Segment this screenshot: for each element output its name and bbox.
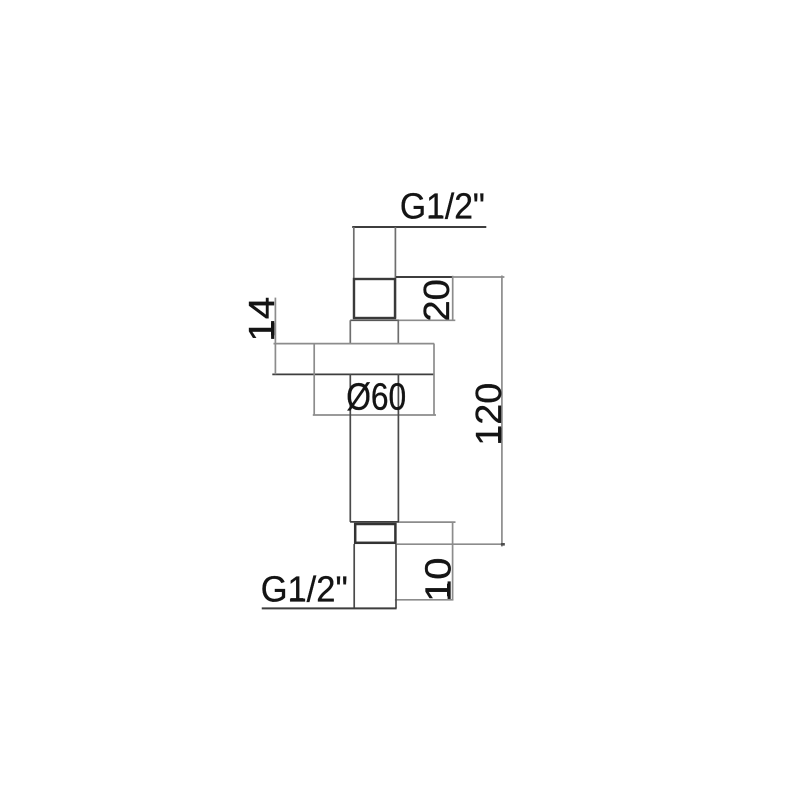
svg-text:G1/2": G1/2" bbox=[261, 568, 348, 609]
leader underline of top G1/2" label bbox=[352, 226, 486, 228]
bottom extension line to dim 120 bbox=[397, 543, 505, 545]
wire pipe left edge bbox=[349, 374, 351, 522]
extension line continuing to dim 120 line bbox=[454, 276, 505, 278]
svg-text:20: 20 bbox=[416, 279, 457, 322]
dim 10 bottom line bbox=[395, 599, 454, 601]
wire bottom pipe right edge bbox=[395, 544, 397, 608]
svg-text:G1/2": G1/2" bbox=[400, 185, 485, 226]
label G1/2" bottom bbox=[261, 568, 348, 609]
wire collar left edge bbox=[349, 320, 351, 344]
dim 14 text (rotated) bbox=[241, 297, 282, 342]
dim 14 boundary line bbox=[274, 298, 276, 375]
dia 60 box bottom edge bbox=[313, 414, 436, 416]
flange bottom edge (dark) with dim 14 extension bbox=[272, 373, 434, 375]
wire top pipe left edge bbox=[353, 227, 355, 318]
dim 10 right boundary line bbox=[452, 522, 454, 600]
dim 10 text (rotated) bbox=[417, 558, 458, 602]
dim 20 text (rotated) bbox=[416, 279, 457, 322]
svg-text:10: 10 bbox=[417, 558, 458, 602]
pipe bottom shoulder line bbox=[350, 521, 399, 523]
wire collar right edge bbox=[397, 320, 399, 344]
dim dia-60 text bbox=[346, 377, 406, 419]
wire bottom pipe left edge bbox=[353, 544, 355, 608]
leader underline of bottom G1/2" label + pipe end line bbox=[262, 607, 397, 609]
extension line from block top to dim 20 (dark part) bbox=[396, 276, 454, 278]
wire top pipe right edge bbox=[394, 227, 396, 318]
top thread block (thick outline) bbox=[354, 279, 395, 318]
dim 120 boundary line bbox=[501, 276, 503, 547]
svg-text:120: 120 bbox=[468, 383, 509, 446]
flange right edge joined with dia60 box right bbox=[433, 344, 435, 416]
wire pipe right edge bbox=[397, 374, 399, 522]
flange left edge joined with dia60 box left bbox=[313, 344, 315, 416]
svg-text:Ø60: Ø60 bbox=[346, 377, 406, 419]
label G1/2" top bbox=[400, 185, 485, 226]
dim 20 bottom line grey part bbox=[399, 319, 455, 321]
collar top shoulder line bbox=[350, 319, 399, 321]
dim 10 top extension line bbox=[399, 521, 456, 523]
dim 120 text (rotated) bbox=[468, 383, 509, 446]
svg-text:14: 14 bbox=[241, 297, 282, 342]
bottom thread block (thick outline) bbox=[355, 524, 395, 543]
flange top edge with dim 14 extension bbox=[274, 343, 435, 345]
dim 20 right boundary line bbox=[452, 276, 454, 321]
